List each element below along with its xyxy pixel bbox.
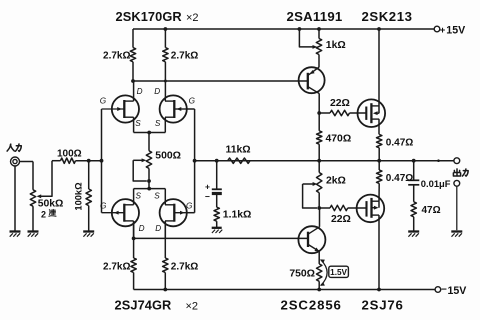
svg-text:1.1kΩ: 1.1kΩ	[223, 209, 252, 220]
svg-text:15V: 15V	[448, 285, 467, 297]
svg-text:0.47Ω: 0.47Ω	[386, 173, 413, 184]
svg-text:1.5V: 1.5V	[330, 268, 347, 277]
svg-text:500Ω: 500Ω	[155, 151, 181, 162]
svg-text:2SA1191: 2SA1191	[287, 9, 343, 24]
svg-text:2SK213: 2SK213	[362, 9, 413, 24]
svg-text:G: G	[100, 97, 107, 106]
svg-text:1kΩ: 1kΩ	[326, 40, 346, 51]
svg-text:S: S	[155, 119, 161, 128]
svg-text:−: −	[441, 285, 447, 296]
svg-text:S: S	[136, 191, 142, 200]
svg-text:S: S	[135, 119, 141, 128]
svg-text:15V: 15V	[446, 25, 465, 37]
svg-text:×2: ×2	[186, 12, 199, 24]
svg-text:G: G	[186, 201, 193, 210]
svg-text:D: D	[154, 87, 160, 96]
svg-text:11kΩ: 11kΩ	[226, 145, 251, 156]
svg-text:750Ω: 750Ω	[289, 269, 315, 280]
svg-text:22Ω: 22Ω	[331, 214, 351, 225]
svg-text:S: S	[154, 191, 160, 200]
svg-text:100Ω: 100Ω	[57, 149, 82, 160]
svg-text:0.01μF: 0.01μF	[421, 178, 451, 189]
svg-text:0.47Ω: 0.47Ω	[386, 137, 413, 148]
svg-text:2SJ76: 2SJ76	[362, 298, 404, 313]
svg-text:2kΩ: 2kΩ	[326, 175, 346, 186]
svg-text:−: −	[205, 191, 210, 201]
svg-text:+: +	[205, 181, 210, 191]
svg-text:2.7kΩ: 2.7kΩ	[171, 262, 198, 273]
svg-text:+: +	[440, 25, 446, 36]
svg-text:22Ω: 22Ω	[330, 98, 350, 109]
svg-text:×2: ×2	[186, 301, 199, 313]
svg-text:2.7kΩ: 2.7kΩ	[103, 262, 130, 273]
svg-text:2.7kΩ: 2.7kΩ	[103, 51, 130, 62]
svg-text:2.7kΩ: 2.7kΩ	[171, 51, 198, 62]
svg-text:2: 2	[41, 209, 46, 219]
svg-text:50kΩ: 50kΩ	[38, 199, 64, 210]
svg-text:D: D	[139, 224, 145, 233]
svg-text:D: D	[137, 87, 143, 96]
svg-text:D: D	[155, 224, 161, 233]
svg-text:2SC2856: 2SC2856	[281, 298, 342, 313]
svg-text:G: G	[189, 97, 196, 106]
svg-text:2SJ74GR: 2SJ74GR	[115, 298, 172, 313]
svg-text:100kΩ: 100kΩ	[74, 182, 84, 211]
svg-text:470Ω: 470Ω	[326, 134, 352, 145]
svg-text:G: G	[100, 201, 107, 210]
svg-text:47Ω: 47Ω	[422, 205, 441, 216]
svg-text:2SK170GR: 2SK170GR	[116, 9, 182, 24]
